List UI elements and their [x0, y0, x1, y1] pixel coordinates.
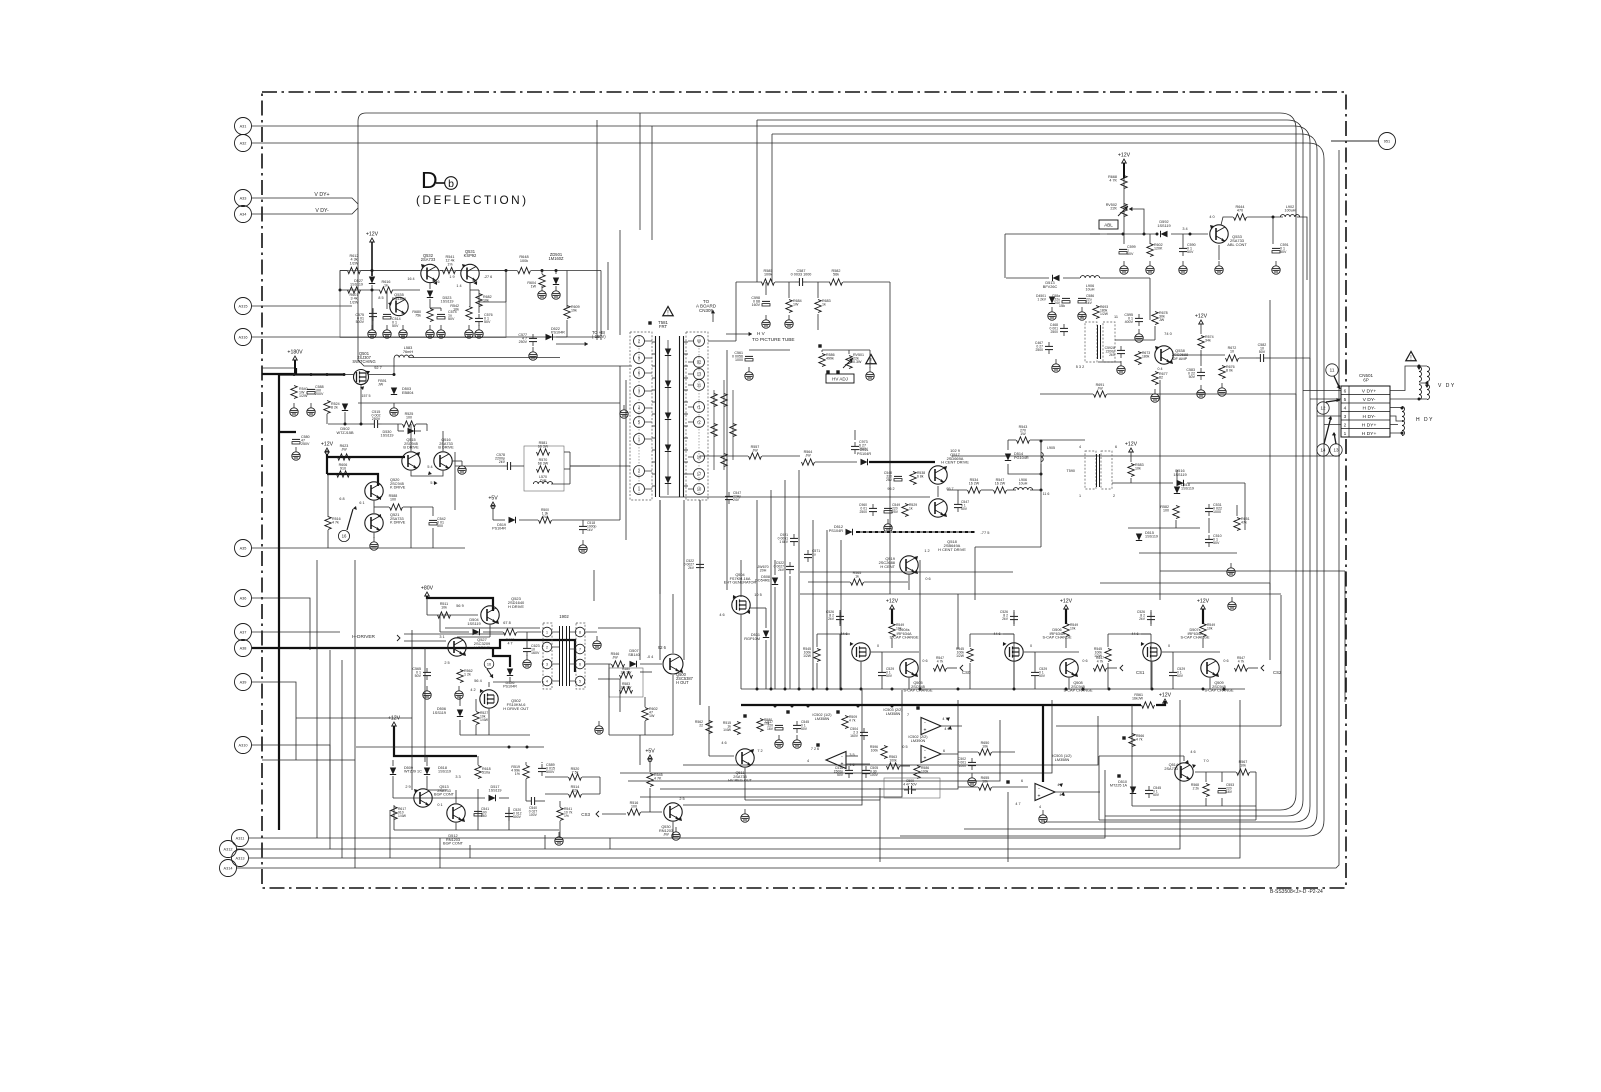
CN501 stub row 4 — [1324, 424, 1341, 426]
resistor R500 1.3k 1W — [539, 517, 552, 523]
flyback transformer T581 left winding box — [630, 332, 652, 500]
power +80V — [425, 592, 430, 596]
T581 secondary winding bars — [679, 336, 681, 497]
pin circle 12 — [1317, 402, 1329, 414]
svg-text:+180V: +180V — [287, 350, 303, 356]
svg-text:50V: 50V — [484, 320, 491, 324]
5V row wires — [492, 507, 494, 520]
svg-text:1 2kV: 1 2kV — [1037, 297, 1046, 301]
bold B drive rail 1 — [327, 456, 405, 458]
wire mid left y718 — [296, 717, 412, 719]
svg-text:50V: 50V — [1127, 252, 1134, 256]
connector pin A314 — [220, 860, 237, 877]
bus wire F — [683, 716, 1098, 765]
resistor R562 1.2k — [457, 670, 463, 683]
wire base Q527 from H-DRIVER — [404, 633, 506, 635]
ground ZD501 — [555, 286, 557, 291]
svg-text:H CENT: H CENT — [880, 564, 895, 569]
svg-text:V DY+: V DY+ — [314, 192, 329, 198]
drive cluster link — [640, 671, 652, 673]
resistor R527 19k 1/4W — [473, 712, 479, 725]
diode D519 PS104R — [509, 517, 516, 523]
rail junction — [840, 688, 843, 691]
capacitor C549 220 25V — [884, 507, 892, 509]
capacitor C527b 0.0027 2kV — [696, 563, 704, 565]
power +5V mid — [648, 755, 653, 759]
T581 right pin r2 — [694, 417, 705, 428]
svg-text:7uH: 7uH — [540, 479, 547, 483]
capacitor C522 0.0027 2kV — [786, 565, 794, 567]
T581 primary winding bars — [655, 336, 657, 497]
svg-text:100V: 100V — [529, 813, 538, 817]
ground C518 — [582, 540, 584, 545]
svg-text:2500: 2500 — [1050, 330, 1058, 334]
resistor R601 3.4k 1/2W — [348, 287, 361, 293]
svg-text:+5V: +5V — [645, 749, 655, 755]
wire Q501 drain down — [360, 385, 362, 424]
MOSFET Q504 FS7KM — [732, 596, 750, 614]
connector pin A33 — [235, 190, 252, 207]
warning triangle RV501 — [866, 354, 876, 363]
bold +12V D504s — [891, 609, 893, 624]
CN501 lead 12 — [1326, 400, 1340, 402]
transistor Q521 2SA733 K DRIVE — [365, 514, 383, 532]
H DY coil wires — [1390, 407, 1402, 409]
diode D515 1SS119 — [1136, 534, 1142, 541]
wire R691 — [1040, 393, 1093, 395]
svg-text:3 1: 3 1 — [439, 635, 444, 639]
svg-text:50V: 50V — [1280, 250, 1287, 254]
resistor R545 4.7K — [647, 774, 653, 787]
svg-text:PS104R: PS104R — [829, 529, 843, 533]
svg-text:SB140: SB140 — [628, 653, 640, 657]
svg-text:92 6: 92 6 — [658, 645, 667, 650]
transistor Q513 2SA733 BGP CONT — [414, 789, 432, 807]
svg-text:A312: A312 — [224, 847, 233, 851]
capacitor C542 0.01 500 — [429, 519, 437, 521]
svg-text:4 6: 4 6 — [1190, 750, 1195, 754]
vertical bus 9 — [919, 560, 921, 689]
svg-text:50V: 50V — [1039, 674, 1046, 678]
svg-text:1 4: 1 4 — [456, 284, 461, 288]
svg-text:-27 6: -27 6 — [484, 275, 492, 279]
capacitor C529 D507s — [1169, 671, 1177, 673]
svg-text:1SS119: 1SS119 — [433, 711, 446, 715]
rail junction — [798, 688, 801, 691]
svg-text:B-SS3508<J>-D -P2-24: B-SS3508<J>-D -P2-24 — [1270, 889, 1323, 895]
resistor R566b 4.7k — [1129, 734, 1135, 747]
resistor R580 2.4 3W — [620, 672, 633, 678]
capacitor C547 0.1 50V — [954, 503, 962, 505]
wires D522 — [556, 336, 567, 338]
lead to pin 16 — [347, 509, 353, 530]
bold +12V B drive vertical — [326, 454, 328, 474]
H CENT emitter line — [660, 496, 820, 498]
svg-text:JW: JW — [378, 383, 384, 387]
svg-text:100k: 100k — [871, 748, 879, 752]
vertical bus 6 — [826, 530, 828, 689]
svg-text:V DY-: V DY- — [1363, 397, 1376, 403]
BGP drop 5 — [609, 838, 611, 849]
MOSFET Q502 FS10KM H DRIVE OUT — [480, 690, 498, 708]
svg-text:JW: JW — [805, 454, 811, 458]
svg-text:4 7k: 4 7k — [332, 521, 339, 525]
svg-text:JW: JW — [663, 833, 669, 837]
V DY deflection coil — [1419, 367, 1422, 382]
svg-text:LM358N: LM358N — [886, 712, 901, 716]
svg-text:4: 4 — [1344, 405, 1347, 411]
power +12V op right — [1163, 699, 1168, 703]
svg-text:4: 4 — [1039, 805, 1041, 809]
warning triangle T581 — [663, 306, 673, 315]
EHT wires — [740, 615, 742, 689]
resistor R572 10 — [1226, 355, 1239, 361]
bold 180V stub — [294, 360, 296, 375]
connector pin A313 — [232, 850, 249, 867]
diode D517 1SS119 — [489, 795, 496, 801]
ground C549 — [887, 519, 889, 524]
capacitor C5xx D507s — [1147, 615, 1155, 617]
svg-text:22K: 22K — [1110, 207, 1117, 211]
svg-text:1/4W: 1/4W — [480, 718, 489, 722]
svg-text:56k: 56k — [833, 273, 839, 277]
resistor R540 1W 1/2W — [291, 386, 297, 399]
bus wire A313 — [249, 700, 1241, 858]
resistor R680 75k — [427, 309, 433, 322]
svg-text:4 7k: 4 7k — [1097, 659, 1104, 663]
svg-text:0 4: 0 4 — [1157, 367, 1162, 371]
T581 right pin 16 — [694, 452, 705, 463]
RV502 tap wire — [1129, 209, 1144, 234]
ground bias 469 — [468, 325, 470, 330]
svg-text:92 7: 92 7 — [374, 366, 381, 370]
capacitor C520 0.012 500V — [505, 812, 513, 814]
svg-text:19k: 19k — [571, 309, 577, 313]
svg-text:100k: 100k — [889, 758, 897, 762]
svg-text:1/2W: 1/2W — [803, 654, 812, 658]
rail junction — [1108, 688, 1111, 691]
svg-text:A39: A39 — [240, 680, 247, 684]
coil L905 — [1041, 453, 1043, 462]
diode D4501 1.2kV — [1049, 297, 1055, 304]
T581 rectifier diode 3 — [665, 413, 671, 420]
capacitor C516 1500p 50V — [845, 769, 853, 771]
svg-text:4 47 50V: 4 47 50V — [903, 782, 917, 786]
rail junction — [1202, 688, 1205, 691]
svg-text:BGP CONT: BGP CONT — [434, 793, 455, 797]
svg-text:DO54RE: DO54RE — [755, 579, 770, 583]
svg-text:92: 92 — [697, 359, 702, 364]
capacitor C518 1900p 1kV — [579, 525, 587, 527]
resistor R529 1k — [902, 504, 908, 517]
wire center verticals c — [726, 350, 728, 590]
op-amp IC502 2/2 LM358N upper — [921, 718, 941, 735]
box around R580/R583 — [609, 668, 643, 697]
capacitor C467 0.27 2500 — [1045, 345, 1053, 347]
CN501 stub row 1 — [1303, 390, 1341, 392]
T581 winding tick — [652, 401, 656, 403]
wire H OUT collector — [957, 594, 959, 649]
svg-text:10 5: 10 5 — [754, 593, 761, 597]
svg-text:75k: 75k — [415, 314, 421, 318]
svg-text:10k: 10k — [453, 308, 459, 312]
HV feed vertical 1 — [756, 120, 758, 282]
D515 wires — [1128, 527, 1200, 529]
capacitor C590 0.1 50V — [1179, 247, 1187, 249]
bold +12V op bus — [741, 704, 1141, 706]
resistor R567 10k — [1237, 769, 1250, 775]
svg-text:74 0: 74 0 — [1164, 331, 1172, 336]
wire L583 out — [409, 357, 560, 359]
resistor R541 12.4k 1% — [443, 267, 456, 273]
svg-text:2kV: 2kV — [828, 617, 835, 621]
resistor R586b 100k — [914, 766, 920, 779]
capacitor C515 0.002 250V — [373, 420, 375, 428]
resistor R547 D506 — [1094, 665, 1107, 671]
svg-text:1k: 1k — [855, 575, 859, 579]
CN501 row divider — [1341, 394, 1390, 396]
resistor R668 4.7K — [1121, 176, 1127, 189]
rail junction — [812, 688, 815, 691]
svg-text:0: 0 — [1168, 644, 1170, 648]
diode D516 1SS119 — [1177, 480, 1184, 486]
svg-text:7 5k: 7 5k — [572, 771, 579, 775]
svg-text:+: + — [1038, 793, 1041, 799]
border frame dash-dot — [262, 92, 1346, 888]
transistor Q535 RN1801 — [390, 297, 408, 315]
resistor R616 1k — [380, 287, 393, 293]
bold +12V D507s — [1202, 609, 1204, 624]
input chevron D504s — [960, 665, 963, 671]
wires Q501 lower — [328, 423, 370, 425]
svg-text:11: 11 — [697, 382, 702, 387]
T902 pin8 wire — [585, 631, 597, 633]
sq R566 — [1122, 736, 1125, 739]
H drive lower wires — [459, 697, 461, 706]
svg-text:3 4: 3 4 — [1182, 227, 1188, 231]
power +12V bias — [370, 238, 375, 242]
T902 ground — [596, 636, 598, 641]
svg-text:+12V: +12V — [1125, 442, 1138, 448]
svg-text:499k: 499k — [826, 357, 834, 361]
resistor R602 47 1W — [642, 708, 648, 721]
power +12V D507s — [1201, 605, 1206, 609]
svg-text:1kV: 1kV — [587, 528, 594, 532]
MOSFET D507s IRF634A S-CAP CHANGE — [1143, 643, 1161, 661]
wire A37 stub — [252, 631, 341, 633]
resistor R582b 100 — [1173, 506, 1179, 519]
svg-text:2 4 3W: 2 4 3W — [621, 670, 633, 674]
svg-text:3: 3 — [546, 662, 548, 666]
svg-text:1: 1 — [546, 630, 548, 634]
svg-text:1/2W: 1/2W — [299, 394, 308, 398]
svg-text:250V: 250V — [372, 417, 381, 421]
T581 winding tick — [652, 425, 656, 427]
resistor R543 270 1W — [1017, 437, 1030, 443]
svg-text:4 7K: 4 7K — [654, 777, 662, 781]
power +12V T590 — [1129, 448, 1134, 452]
resistor R648 100k — [518, 267, 531, 273]
svg-text:PS104R: PS104R — [857, 452, 871, 456]
wire right area vertical 2 — [1269, 300, 1271, 590]
pin circle 11 — [1326, 364, 1338, 376]
coil L570 7uH — [533, 482, 552, 484]
diode D522 PS104R — [546, 334, 553, 340]
resistor R549 D504s — [889, 624, 895, 637]
svg-text:200V: 200V — [315, 392, 324, 396]
ground C565 — [426, 686, 428, 691]
BGP drop 1 — [389, 810, 391, 858]
T581 right pin 11 — [694, 380, 705, 391]
CN501 stub row 2 — [1310, 398, 1341, 400]
ground R540 — [293, 403, 295, 408]
resistor R561 16k — [1142, 702, 1155, 708]
svg-text:A38: A38 — [240, 646, 247, 650]
svg-text:100uH: 100uH — [1285, 209, 1296, 213]
svg-text:50V: 50V — [392, 324, 399, 328]
capacitor C589 0.015 500V — [538, 767, 546, 769]
transistor Q530 RN1203 — [664, 803, 682, 821]
BGP drop 2 — [439, 838, 441, 868]
power +12V D504s — [890, 605, 895, 609]
wire fbt top feed 2 — [607, 262, 609, 330]
svg-text:82k: 82k — [572, 789, 578, 793]
T581 pin column dotted left — [638, 336, 640, 495]
wire center verticals a — [659, 500, 661, 660]
svg-text:50V: 50V — [448, 317, 455, 321]
resistor R676 8.0k — [1219, 366, 1225, 379]
resistor R585 100k — [762, 279, 775, 285]
svg-text:A33: A33 — [240, 196, 247, 200]
ground C577 — [532, 347, 534, 352]
bold op bus vertical — [1042, 705, 1044, 782]
capacitor C593 0.1 400V — [1135, 317, 1143, 319]
svg-text:10k: 10k — [1207, 626, 1213, 630]
diode D507 SB140 — [630, 661, 637, 667]
input chevron D507s — [1261, 665, 1264, 671]
svg-text:1SS119: 1SS119 — [1157, 224, 1170, 228]
svg-text:CS0: CS0 — [962, 670, 971, 675]
input chevron D506 — [1120, 665, 1123, 671]
ground op row — [744, 809, 746, 814]
capacitor C500 4.47 50V — [907, 786, 909, 794]
bus wire A311 — [249, 770, 1106, 838]
H DY deflection coil — [1402, 407, 1405, 422]
T581 left pin 5 — [634, 417, 645, 428]
transistor Q508 2SC945 S-CAP CHANGE — [1060, 659, 1078, 677]
svg-text:160V: 160V — [752, 303, 761, 307]
ground R684 — [788, 315, 790, 320]
T581 left pin 1 — [634, 484, 645, 495]
bus wire I — [660, 700, 958, 789]
svg-text:8 0k: 8 0k — [1226, 369, 1233, 373]
svg-text:100k: 100k — [921, 769, 929, 773]
svg-text:1%: 1% — [515, 772, 521, 776]
svg-text:1 6kV: 1 6kV — [779, 540, 788, 544]
svg-text:K DRIVE: K DRIVE — [390, 521, 406, 525]
svg-text:100V: 100V — [870, 773, 879, 777]
MOSFET D504s IRF634A S-CAP CHANGE — [852, 643, 870, 661]
ground C580 — [295, 447, 297, 452]
svg-text:1 9: 1 9 — [449, 275, 454, 279]
diode D523 1SS119 — [427, 291, 433, 298]
svg-text:1 2: 1 2 — [924, 549, 929, 553]
svg-text:+12V: +12V — [366, 232, 379, 238]
svg-text:KSP92: KSP92 — [464, 253, 477, 258]
svg-text:1SS119: 1SS119 — [438, 770, 451, 774]
connector pin A31 — [235, 118, 252, 135]
capacitor C529 D506 — [1031, 671, 1039, 673]
BGP drop 3 — [469, 845, 471, 858]
pin circle 16 — [338, 530, 349, 541]
wire A316 stub — [252, 336, 601, 338]
wires Q530 — [649, 760, 651, 772]
svg-text:K DRIVE: K DRIVE — [390, 486, 406, 490]
power +12V B drive — [325, 448, 330, 452]
svg-text:2: 2 — [1113, 494, 1115, 498]
svg-text:4 0: 4 0 — [1209, 215, 1214, 219]
sq D510 — [1117, 774, 1120, 777]
wires D513 — [1006, 277, 1049, 279]
svg-text:0 6: 0 6 — [1082, 659, 1087, 663]
resistor R549 D507s — [1200, 624, 1206, 637]
connector pin A36 — [235, 590, 252, 607]
svg-text:FRT: FRT — [659, 324, 668, 329]
svg-text:22: 22 — [699, 723, 703, 727]
resistor R583b 10k — [1128, 464, 1134, 477]
svg-text:5: 5 — [1344, 397, 1347, 403]
T581 internal wires — [667, 340, 669, 495]
power +5V left — [491, 502, 496, 506]
resistor R677 82 — [1152, 372, 1158, 385]
svg-text:6: 6 — [943, 749, 945, 753]
svg-text:L905: L905 — [1047, 446, 1055, 450]
resistor R520 7.5k — [569, 774, 582, 780]
CN501 row divider — [1341, 428, 1390, 430]
capacitor C545b 0.1 50V — [1145, 789, 1153, 791]
wire mid left — [262, 367, 296, 369]
svg-text:11: 11 — [1330, 367, 1335, 372]
ABL grounds — [1123, 261, 1125, 266]
svg-text:7 2: 7 2 — [757, 749, 762, 753]
ground T581 — [623, 405, 625, 410]
resistor R562c 22 — [706, 721, 712, 734]
svg-text:3 3: 3 3 — [455, 775, 460, 779]
capacitor C580 47 250V — [292, 438, 300, 440]
vertical bus 7 — [840, 540, 842, 689]
transistor Q509 2SC945 S-CAP CHANGE — [1201, 659, 1219, 677]
capacitor C531 0.022 1000 — [1205, 507, 1213, 509]
T581 winding tick — [652, 449, 656, 451]
diode D508 DD54RE — [772, 578, 778, 585]
svg-text:7 2 6: 7 2 6 — [811, 747, 819, 751]
svg-text:10k: 10k — [982, 780, 988, 784]
wire R691 to bus — [1160, 393, 1296, 395]
bus wire A — [366, 112, 1280, 114]
bias cluster wires — [340, 270, 347, 272]
wire y747 row — [356, 746, 544, 748]
resistor R547 D504s — [934, 665, 947, 671]
svg-text:1W: 1W — [542, 515, 548, 519]
T581 winding tick — [652, 413, 656, 415]
pin circle 13 — [1330, 444, 1342, 456]
resistor R545 D506 — [967, 649, 973, 662]
CN501 stub row 3 — [1317, 415, 1341, 417]
T902 right pin 6 — [575, 659, 585, 669]
potentiometer RV501 22k — [846, 356, 852, 369]
T581 winding tick — [652, 473, 656, 475]
rail junction — [1223, 688, 1226, 691]
